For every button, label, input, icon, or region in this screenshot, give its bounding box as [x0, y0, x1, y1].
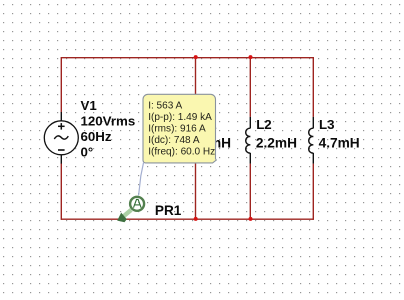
svg-text:2.2mH: 2.2mH: [256, 136, 297, 151]
label L2: [256, 117, 272, 132]
probe PR1 ring: [130, 197, 144, 211]
svg-text:L2: L2: [256, 117, 272, 132]
svg-text:I(freq): 60.0 Hz: I(freq): 60.0 Hz: [148, 146, 215, 157]
inductor L2: [246, 117, 251, 164]
wire left (V1 branch): [60, 57, 62, 220]
svg-text:L3: L3: [319, 117, 335, 132]
label L1 (hidden behind tooltip): [201, 117, 217, 132]
tooltip leader line: [139, 163, 144, 196]
wire L1 branch: [195, 58, 197, 220]
svg-text:I: 563 A: I: 563 A: [148, 100, 182, 111]
value label L1 1mH (partially visible right of tooltip): [201, 136, 231, 151]
tooltip text: [148, 100, 215, 157]
junction top L2: [249, 55, 253, 59]
svg-text:PR1: PR1: [155, 203, 182, 218]
label L3: [319, 117, 335, 132]
probe PR1 arrow: [117, 210, 131, 223]
junction bottom L2: [249, 217, 253, 221]
label PR1: [155, 203, 182, 218]
wire top: [61, 57, 313, 59]
svg-text:60Hz: 60Hz: [81, 129, 112, 144]
value label L2 2.2mH: [256, 136, 297, 151]
svg-text:V1: V1: [81, 98, 98, 113]
svg-text:0°: 0°: [81, 144, 94, 159]
voltage source V1 symbol: [44, 112, 78, 164]
label V1: [81, 98, 136, 159]
svg-text:4.7mH: 4.7mH: [319, 136, 360, 151]
inductor L3: [309, 117, 314, 164]
wire L2 branch: [249, 58, 251, 220]
svg-text:I(rms): 916 A: I(rms): 916 A: [148, 123, 206, 134]
svg-text:I(dc): 748 A: I(dc): 748 A: [148, 135, 200, 146]
svg-text:I(p-p): 1.49 kA: I(p-p): 1.49 kA: [148, 112, 212, 123]
junction bottom L1: [194, 217, 198, 221]
inductor L1 (mostly hidden behind probe tooltip): [191, 117, 196, 164]
junction top L1: [194, 55, 198, 59]
wire bottom: [61, 218, 313, 220]
probe tooltip box: [143, 94, 216, 163]
value label L3 4.7mH: [319, 136, 360, 151]
svg-text:120Vrms: 120Vrms: [81, 113, 136, 128]
wire L3 branch (right side): [312, 57, 314, 220]
